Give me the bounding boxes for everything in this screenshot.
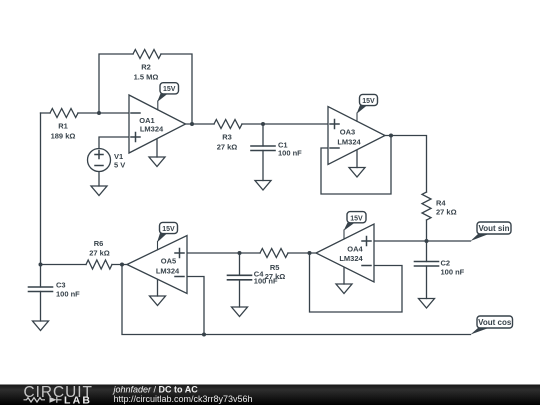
svg-text:R2: R2 bbox=[141, 63, 151, 72]
svg-text:R6: R6 bbox=[94, 239, 104, 248]
svg-text:LM324: LM324 bbox=[156, 267, 180, 276]
svg-text:15V: 15V bbox=[162, 226, 175, 233]
svg-text:R3: R3 bbox=[222, 133, 232, 142]
svg-text:100 nF: 100 nF bbox=[278, 149, 302, 158]
svg-text:OA4: OA4 bbox=[347, 245, 363, 254]
svg-text:15V: 15V bbox=[350, 216, 363, 223]
svg-text:27 kΩ: 27 kΩ bbox=[436, 208, 457, 217]
svg-text:OA5: OA5 bbox=[161, 257, 176, 266]
svg-text:LM324: LM324 bbox=[337, 138, 361, 147]
svg-text:15V: 15V bbox=[163, 86, 176, 93]
svg-text:LAB: LAB bbox=[64, 394, 92, 405]
svg-text:Vout cos: Vout cos bbox=[478, 318, 512, 327]
svg-text:100 nF: 100 nF bbox=[441, 268, 465, 277]
svg-text:1.5 MΩ: 1.5 MΩ bbox=[134, 73, 159, 82]
svg-text:LM324: LM324 bbox=[339, 254, 363, 263]
svg-text:LM324: LM324 bbox=[140, 125, 164, 134]
svg-text:27 kΩ: 27 kΩ bbox=[217, 143, 238, 152]
svg-text:100 nF: 100 nF bbox=[254, 277, 278, 286]
svg-text:R4: R4 bbox=[436, 199, 446, 208]
svg-text:http://circuitlab.com/ck3rr8y7: http://circuitlab.com/ck3rr8y73v56h bbox=[114, 394, 253, 404]
svg-text:Vout sin: Vout sin bbox=[479, 224, 510, 233]
svg-text:OA3: OA3 bbox=[340, 128, 355, 137]
svg-text:C3: C3 bbox=[56, 281, 66, 290]
svg-text:27 kΩ: 27 kΩ bbox=[89, 249, 110, 258]
svg-text:johnfader / DC to AC: johnfader / DC to AC bbox=[113, 385, 199, 395]
svg-text:100 nF: 100 nF bbox=[56, 290, 80, 299]
svg-text:R5: R5 bbox=[270, 263, 280, 272]
svg-text:5 V: 5 V bbox=[114, 161, 125, 170]
svg-text:R1: R1 bbox=[58, 122, 68, 131]
svg-text:189 kΩ: 189 kΩ bbox=[51, 132, 76, 141]
svg-text:C2: C2 bbox=[441, 259, 451, 268]
svg-text:15V: 15V bbox=[362, 98, 375, 105]
